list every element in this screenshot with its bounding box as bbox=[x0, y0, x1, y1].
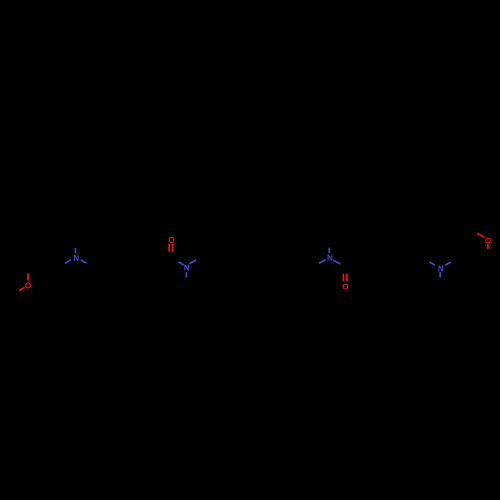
bond C24-C25 (right methoxypropyl) bbox=[455, 239, 457, 258]
bond C9=O2 double bond line 2 (red) bbox=[172, 244, 174, 252]
bond C25-C26 bbox=[456, 230, 472, 239]
bond C22-C23 bbox=[409, 258, 424, 267]
bond N2-C10 half (blue, up-right) bbox=[190, 260, 197, 264]
bond C19-C20 bbox=[361, 258, 377, 267]
svg-text:N: N bbox=[184, 264, 190, 273]
svg-text:O: O bbox=[168, 236, 175, 245]
bond C18=O3 double bond line 2 (red) bbox=[346, 274, 348, 282]
svg-text:N: N bbox=[73, 254, 79, 263]
svg-text:O: O bbox=[485, 236, 492, 245]
bond N4-C23 half (blue, up-left) bbox=[430, 262, 436, 265]
bond N3-C17 half (blue, down-left) bbox=[319, 260, 325, 264]
bond N3-C18 half (blue, down-right to carbonyl) bbox=[333, 260, 340, 264]
bond C10-C11 (central octyl chain) bbox=[202, 258, 218, 267]
bond C18=O3 double bond line 1 (red) bbox=[342, 274, 344, 282]
bond N1-C4 half (blue, down-right) bbox=[81, 260, 87, 263]
bond C4-C5 (left pentyl chain) bbox=[92, 258, 108, 267]
bond C2-C3 bbox=[44, 258, 60, 267]
bond C12-C13 bbox=[234, 258, 250, 267]
bond O1-C1 upper half (red, methoxy O to chain) bbox=[27, 273, 29, 280]
bond N2-C9 half (blue, up-left to carbonyl) bbox=[178, 262, 183, 265]
atom labels bbox=[25, 236, 492, 291]
bond N1-C3 half (blue, down-left) bbox=[65, 260, 71, 263]
bond C1-C2 (left methoxypropyl) bbox=[28, 258, 44, 267]
bond C21-C22 bbox=[393, 258, 409, 267]
bond C13-C14 bbox=[250, 258, 266, 267]
bond C11-C12 bbox=[218, 258, 234, 267]
svg-text:N: N bbox=[327, 254, 333, 263]
svg-text:O: O bbox=[25, 282, 32, 291]
bond C5-C6 bbox=[108, 258, 124, 267]
bond C8-C9 carbonyl bbox=[156, 258, 172, 267]
bond N4-C24 half (blue, up-right) bbox=[445, 262, 451, 265]
bond N2-CH3 half (blue, methyl down) bbox=[185, 272, 187, 277]
bond N3-CH3 half (blue, methyl up) bbox=[328, 248, 330, 253]
svg-text:N: N bbox=[438, 265, 444, 274]
visible colored half-bonds bbox=[19, 233, 488, 290]
bond N1-CH3 half (blue, methyl up) bbox=[75, 248, 77, 253]
svg-text:O: O bbox=[342, 282, 349, 291]
bond C7-C8 bbox=[140, 258, 156, 267]
bond O1-CH3 half (red, methyl down-left) bbox=[19, 287, 24, 290]
bond O4-CH3 half (red, methyl down) bbox=[487, 244, 489, 249]
bond C6-C7 bbox=[124, 258, 140, 267]
bond C16-C17 bbox=[298, 258, 314, 267]
bond O4-C26 half (red, up-left to chain) bbox=[477, 233, 484, 237]
bond C18-C19 (right pentyl chain) bbox=[345, 258, 361, 267]
bond C20-C21 bbox=[377, 258, 393, 267]
bond C14-C15 bbox=[266, 258, 282, 267]
wire: carbon skeleton (black bonds, invisible on black background) bbox=[28, 230, 472, 267]
bond N4-CH3 half (blue, methyl down) bbox=[439, 272, 441, 277]
bond C15-C16 bbox=[282, 258, 298, 267]
bond C9=O2 double bond line 1 (red) bbox=[168, 244, 170, 252]
